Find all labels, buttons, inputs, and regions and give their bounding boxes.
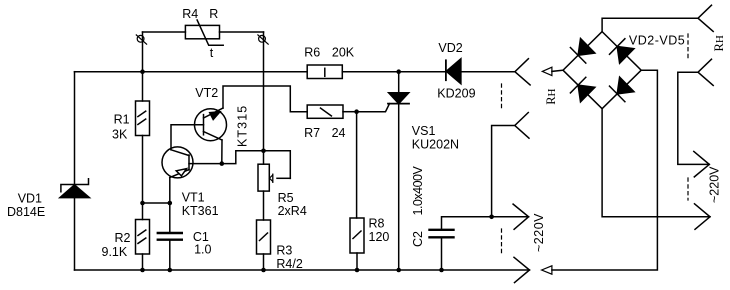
connector dashed link: left top pair xyxy=(501,84,503,109)
wire: C2 riser and wire to mains arrow pin xyxy=(442,217,529,230)
transistor VT2 emitter line (top) xyxy=(204,108,224,118)
svg-text:RН: RН xyxy=(712,35,726,51)
junction dot: C1 bottom on rail xyxy=(168,268,173,273)
svg-text:120: 120 xyxy=(369,230,390,244)
transistor VT1 base bar xyxy=(188,155,190,170)
svg-text:1.0x400V: 1.0x400V xyxy=(411,166,425,216)
junction dot: R1/R2 column at base wire xyxy=(140,201,145,206)
transistor VT1 circle xyxy=(162,147,193,178)
junction dot: R5 top node xyxy=(261,149,266,154)
bridge diode D2 bar xyxy=(610,39,625,55)
transistor VT2 base bar xyxy=(203,115,205,135)
svg-text:1.0: 1.0 xyxy=(194,243,211,257)
wire: R1 bottom to R2 top xyxy=(142,136,144,220)
svg-text:R1: R1 xyxy=(114,113,130,127)
thyristor VS1 triangle xyxy=(389,93,409,104)
wire: R3 bottom lead xyxy=(263,254,265,270)
svg-text:~220V: ~220V xyxy=(708,166,722,203)
trimmer R5 body xyxy=(258,164,269,191)
resistor R7 power mark \ xyxy=(321,108,332,116)
svg-text:24: 24 xyxy=(332,126,346,140)
connector arrow pin: mains live (middle) xyxy=(513,204,529,229)
terminal X: right clamp circle of R4 xyxy=(259,35,266,42)
zener diode VD1 triangle xyxy=(60,185,90,198)
junction dot: R3 bottom on rail xyxy=(261,268,266,273)
svg-text:VD1: VD1 xyxy=(18,192,42,206)
svg-text:RН: RН xyxy=(544,88,558,104)
junction dot: VS1 cathode on rail xyxy=(396,268,401,273)
terminal X: left clamp slash xyxy=(136,35,146,44)
junction dot: C1 column at base wire xyxy=(168,201,173,206)
wire: bottom male pin to bridge right node xyxy=(552,70,658,270)
svg-text:R8: R8 xyxy=(369,217,385,231)
connector male pin: top left of load loop xyxy=(542,67,552,75)
transistor VT2 emitter arrow xyxy=(210,112,220,120)
transistor VT2 collector line (bottom) xyxy=(204,132,223,141)
resistor R1 body xyxy=(136,101,150,136)
bridge diode D1 bar xyxy=(570,48,585,64)
bridge diode D1 (top-left edge) triangle xyxy=(578,39,595,56)
thyristor VS1 cathode lead to bottom rail xyxy=(398,104,400,270)
transistor VT2 circle xyxy=(195,109,227,141)
connector dashed link: right bottom pair xyxy=(687,178,689,200)
connector fork: right second pin xyxy=(698,59,713,85)
wire: VT1 collector up to VT2 base xyxy=(171,125,204,150)
bridge rectifier VD2-VD5 diamond edges xyxy=(563,32,641,109)
wire: VT1 emitter down to C1 column xyxy=(169,178,171,234)
svg-text:KT361: KT361 xyxy=(182,204,219,218)
wire: R2 bottom lead xyxy=(142,254,144,270)
transistor VT1 collector line xyxy=(171,150,189,156)
connector fork: second pin xyxy=(515,113,529,139)
svg-text:KU202N: KU202N xyxy=(412,138,459,152)
wire: R5 wiper loop to top junction xyxy=(264,151,291,179)
wire: R1 top lead xyxy=(142,72,144,101)
svg-text:KD209: KD209 xyxy=(437,87,475,101)
wire: R5 bottom to R3 top xyxy=(263,191,265,220)
thermistor R4 diagonal + foot xyxy=(197,20,223,45)
junction dot: VT1 base / VT2 emitter-low lead xyxy=(220,161,225,166)
svg-text:R2: R2 xyxy=(115,231,131,245)
bridge diode D4 bar xyxy=(610,86,625,102)
resistor R6 power mark | xyxy=(324,68,326,76)
svg-text:R4: R4 xyxy=(182,7,198,21)
connector arrow pin: right bottom xyxy=(695,204,711,230)
resistor R8 power mark / xyxy=(353,231,361,239)
zener diode VD1 cathode bar with hooks xyxy=(61,179,89,192)
wire: bridge top node to top-right fork xyxy=(602,18,698,31)
capacitor C1 bottom plate xyxy=(158,238,182,240)
svg-text:R7: R7 xyxy=(304,126,320,140)
junction dot: C2 bottom on rail xyxy=(439,268,444,273)
junction dot: R1 top / rail xyxy=(140,69,145,74)
svg-text:VD2: VD2 xyxy=(438,41,462,55)
wire: R8 bottom lead xyxy=(356,253,358,270)
svg-text:VT2: VT2 xyxy=(195,86,218,100)
wire: bridge bottom node down and right to arrow pin xyxy=(602,109,710,217)
thyristor VS1 cathode bar xyxy=(388,103,409,105)
capacitor C1 top plate xyxy=(158,232,182,234)
wire: second fork pin to C2 node xyxy=(492,126,515,217)
svg-text:C2: C2 xyxy=(411,231,425,247)
connector arrow pin: mains neutral (bottom rail end) xyxy=(514,257,530,282)
wire: right second fork to right arrow pin xyxy=(678,72,710,164)
diode VD2 cathode bar xyxy=(445,60,447,80)
svg-text:VT1: VT1 xyxy=(182,191,205,205)
wire: left vertical from VD1 anode to bottom rail xyxy=(74,198,76,270)
bridge diode D3 (bottom-left edge) triangle xyxy=(578,85,595,102)
wire: drop to R8 xyxy=(356,112,358,218)
trimmer R5 wiper arrow xyxy=(269,175,272,181)
connector dashed link: right top pair xyxy=(687,34,689,59)
junction dot: gate / R8 node xyxy=(354,109,359,114)
svg-text:VD2-VD5: VD2-VD5 xyxy=(629,33,685,47)
svg-text:~220V: ~220V xyxy=(532,213,546,252)
junction dot: C2 top node xyxy=(489,215,494,220)
transistor VT1 emitter line xyxy=(170,170,189,178)
connector fork: top right xyxy=(698,5,713,31)
resistor R6 body xyxy=(307,65,342,79)
svg-text:3K: 3K xyxy=(112,128,128,142)
resistor R8 body xyxy=(350,218,364,253)
connector male pin: bottom left of mains loop xyxy=(542,266,552,274)
svg-text:R6: R6 xyxy=(304,46,320,60)
wire: C1 bottom lead xyxy=(169,240,171,270)
wire: rail from VD2 to output fork xyxy=(461,71,515,73)
svg-text:20K: 20K xyxy=(332,46,355,60)
wire: C2 bottom lead xyxy=(441,237,443,270)
svg-text:VS1: VS1 xyxy=(412,124,436,138)
svg-text:KT315: KT315 xyxy=(236,105,250,147)
wire: VT2 bottom lead down to base junction xyxy=(221,140,223,164)
thermistor R4 body xyxy=(185,25,219,38)
resistor R2 body xyxy=(136,220,150,255)
svg-text:D814E: D814E xyxy=(7,205,45,219)
terminal X: left clamp circle of R4 xyxy=(137,35,144,42)
svg-text:R: R xyxy=(209,7,218,21)
thyristor VS1 anode lead xyxy=(398,72,400,93)
transistor VT1 emitter open arrow xyxy=(176,169,186,176)
wire: R7 right lead to gate junction xyxy=(343,111,357,113)
wire: VT1 base junction to R5 top junction xyxy=(222,151,264,164)
svg-text:2xR4: 2xR4 xyxy=(278,204,307,218)
wire: bottom rail xyxy=(75,269,530,271)
wire: VT2 top lead up and right to R7 drop xyxy=(223,86,307,112)
bridge diode D2 (top-right edge) triangle xyxy=(617,47,634,64)
junction dot: R2 bottom on rail xyxy=(140,268,145,273)
bridge diode D4 (bottom-right edge) triangle xyxy=(617,77,634,94)
wire: R4 right vertical down to R5 top junction xyxy=(263,32,265,151)
wire: top rail from left corner to R6 xyxy=(75,71,308,73)
wire: R4 right lead xyxy=(220,31,264,33)
resistor R3 body xyxy=(257,220,271,254)
bridge diode D3 bar xyxy=(570,77,585,93)
junction dot: R8 bottom on rail xyxy=(355,268,360,273)
wire: gate wire to VS1 xyxy=(357,104,390,112)
wire: VT1 base lead to junction xyxy=(189,163,222,165)
resistor R3 power mark / xyxy=(260,233,268,241)
svg-text:t: t xyxy=(210,46,214,60)
connector fork: regulator output top (to load plug) xyxy=(515,59,530,85)
wire: R4 left lead xyxy=(143,31,186,33)
capacitor C2 top plate xyxy=(430,229,454,231)
connector arrow pin: right middle xyxy=(694,151,710,177)
diode VD2 triangle xyxy=(446,59,461,84)
svg-text:R4/2: R4/2 xyxy=(276,257,302,271)
svg-text:R5: R5 xyxy=(278,191,294,205)
wire: rail from R6 to VD2 xyxy=(342,71,446,73)
svg-text:R3: R3 xyxy=(276,244,292,258)
wire: junction down to R5 xyxy=(263,151,265,164)
junction dot: VS1 anode tap on rail xyxy=(396,69,401,74)
svg-text:9.1K: 9.1K xyxy=(102,245,128,259)
resistor R2 power marks // xyxy=(138,230,146,235)
connector dashed link: left bottom pair xyxy=(501,229,503,255)
wire: male pin to bridge left node xyxy=(552,70,563,71)
wire: horizontal link R1 column to C1 column xyxy=(143,202,170,204)
capacitor C2 bottom plate xyxy=(430,236,454,238)
wire: R4 left terminal drop (corner to rail) xyxy=(142,32,144,72)
resistor R7 body xyxy=(307,105,343,118)
wire: left vertical from top rail to VD1 cathode xyxy=(74,72,76,185)
resistor R1 power marks // xyxy=(138,111,146,116)
terminal X: right clamp slash xyxy=(258,35,268,44)
